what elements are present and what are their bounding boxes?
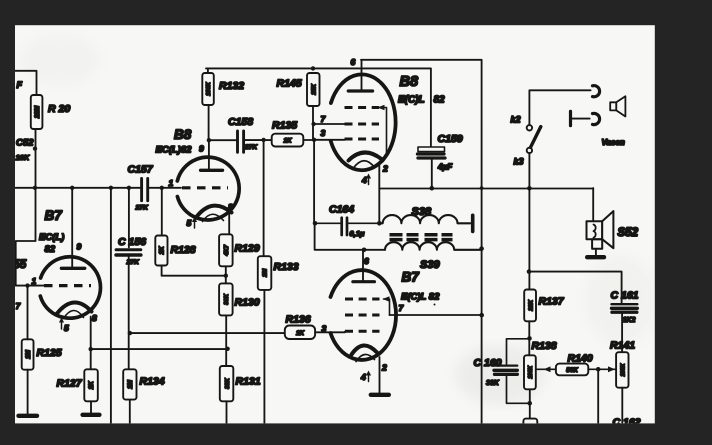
tube B7 pentode U4	[322, 256, 405, 382]
svg-text:27K: 27K	[135, 205, 150, 212]
svg-text:S38: S38	[412, 206, 432, 218]
wire C159 bottom	[431, 160, 433, 188]
wire pin2 to ground	[379, 357, 381, 392]
svg-text:R138: R138	[532, 340, 557, 352]
svg-text:22K: 22K	[528, 299, 534, 311]
wire S52 feed	[592, 188, 594, 221]
svg-text:R128: R128	[171, 244, 196, 256]
svg-text:55: 55	[14, 259, 27, 271]
svg-text:B8: B8	[174, 127, 192, 142]
svg-text:R 20: R 20	[48, 103, 70, 115]
resistor R125	[22, 339, 62, 369]
svg-text:4: 4	[361, 175, 367, 185]
capacitor C159	[418, 133, 463, 172]
svg-text:EC(L): EC(L)	[39, 232, 64, 243]
capacitor C160	[474, 339, 530, 404]
resistor R140	[537, 353, 617, 376]
svg-text:82: 82	[45, 244, 56, 255]
ground under S52	[587, 255, 604, 259]
ground under R125	[19, 414, 38, 418]
ground under B7 pentode	[371, 393, 389, 397]
wire output bus y188	[379, 165, 593, 189]
wire R141 bottom	[621, 388, 623, 423]
wire cathode B7	[90, 317, 92, 370]
svg-text:S39: S39	[420, 259, 440, 271]
svg-text:S52: S52	[618, 227, 639, 239]
svg-text:R129: R129	[235, 243, 260, 255]
jack contact upper	[593, 86, 600, 97]
svg-text:10K: 10K	[16, 153, 30, 162]
wire R138 bottom	[529, 389, 531, 418]
resistor R137	[524, 290, 565, 322]
resistor R128	[155, 236, 195, 266]
wire R145 bottom chain x314	[313, 106, 314, 223]
svg-text:100K: 100K	[528, 365, 534, 379]
wire pin7 to rail	[390, 314, 482, 316]
svg-text:4μF: 4μF	[437, 163, 453, 172]
capacitor C156	[116, 236, 146, 266]
wire S52 to ground	[595, 249, 597, 255]
inductor S38	[379, 206, 472, 231]
wire R131 bottom	[226, 401, 228, 423]
wire pin8 to R129	[228, 211, 230, 234]
svg-text:1: 1	[169, 178, 174, 188]
svg-text:C52: C52	[16, 138, 34, 149]
switch k2 k3	[511, 90, 591, 188]
svg-text:82: 82	[434, 95, 446, 106]
svg-text:F: F	[17, 80, 23, 90]
tube B7 triode U1	[32, 188, 101, 333]
resistor R130	[219, 283, 260, 315]
svg-text:33K: 33K	[225, 377, 231, 388]
wire C158 link	[209, 139, 272, 141]
wire main signal bus y188	[15, 187, 181, 189]
resistor R132	[202, 73, 244, 105]
wire tap x598	[597, 369, 599, 423]
svg-text:6: 6	[351, 57, 356, 67]
svg-text:1K2: 1K2	[623, 317, 636, 324]
svg-text:B7: B7	[45, 208, 64, 223]
svg-text:R136: R136	[286, 314, 311, 326]
svg-text:100K: 100K	[206, 81, 212, 95]
svg-text:1K: 1K	[296, 330, 305, 337]
svg-text:8: 8	[92, 313, 97, 323]
svg-text:100K: 100K	[621, 362, 627, 376]
svg-text:R137: R137	[539, 296, 565, 308]
resistor R127	[57, 369, 98, 401]
svg-text:6: 6	[364, 256, 369, 266]
wire R137 branch x529	[528, 188, 530, 289]
wire R125 grid lead	[27, 286, 29, 414]
svg-text:R141: R141	[610, 340, 635, 352]
resistor R129	[219, 234, 260, 266]
svg-text:1: 1	[32, 276, 37, 286]
tube B8 pentode U3	[331, 57, 396, 185]
wire C156 R134 chain	[129, 188, 130, 423]
svg-text:3: 3	[321, 128, 326, 138]
svg-text:5: 5	[187, 218, 192, 228]
wire R133 chain	[263, 140, 266, 423]
svg-text:Vasen: Vasen	[602, 138, 625, 147]
tube B8 triode U2	[169, 144, 240, 229]
wire R135 to tube	[303, 139, 314, 141]
inductor S39	[385, 242, 482, 271]
speaker S52	[587, 211, 639, 249]
svg-text:27K: 27K	[244, 144, 259, 151]
svg-text:R130: R130	[235, 297, 260, 309]
svg-text:9: 9	[199, 144, 204, 154]
svg-text:4K7: 4K7	[224, 244, 230, 256]
core S38 S39	[390, 235, 453, 240]
svg-text:56K: 56K	[566, 367, 578, 374]
svg-text:k3: k3	[514, 157, 524, 167]
wire C164 branch	[315, 223, 385, 250]
potentiometer R141	[610, 340, 635, 388]
wire pin3 B8	[314, 139, 345, 141]
wire B+ feed y68	[206, 68, 431, 146]
resistor R135	[272, 120, 304, 147]
svg-text:R135: R135	[272, 120, 297, 132]
wire C52 branch vertical	[16, 129, 36, 286]
wire grid bus y333	[130, 332, 285, 334]
svg-text:C 160: C 160	[474, 357, 502, 369]
capacitor C164	[315, 204, 379, 238]
resistor R136	[285, 314, 315, 340]
svg-text:0,1μ: 0,1μ	[350, 229, 365, 238]
capacitor C158	[228, 116, 258, 152]
wire anode pin6 rail	[361, 60, 482, 423]
svg-text:C157: C157	[128, 164, 154, 176]
svg-text:4: 4	[360, 372, 366, 382]
svg-text:2: 2	[382, 164, 388, 174]
wire vertical rail x111	[110, 188, 112, 423]
resistor R20	[31, 95, 71, 129]
svg-text:R132: R132	[219, 80, 244, 92]
potentiometer R138	[524, 340, 557, 389]
svg-text:22M: 22M	[34, 105, 41, 119]
wire F top-left	[15, 71, 37, 95]
wire B7 anode lead	[362, 250, 364, 282]
wire R129 R130 link	[225, 266, 227, 283]
wire R130 R131 link	[225, 315, 227, 366]
wire pin2 vertical x379	[378, 189, 380, 224]
capacitor C157	[128, 164, 154, 212]
wire cathode bus y349	[91, 348, 228, 350]
svg-text:R127: R127	[57, 378, 83, 390]
wire R128 leads	[162, 188, 226, 276]
svg-text:EC(L)82: EC(L)82	[156, 145, 193, 156]
svg-text:k2: k2	[511, 115, 521, 125]
resistor R134	[123, 369, 165, 399]
svg-text:R133: R133	[274, 261, 299, 273]
svg-text:B8: B8	[400, 74, 419, 90]
svg-text:C 161: C 161	[611, 290, 639, 302]
resistor R131	[220, 366, 261, 401]
wire R137 R138 link	[528, 321, 530, 355]
wire grid B7	[16, 285, 44, 287]
wire R127 to ground	[90, 401, 92, 413]
svg-text:1M: 1M	[127, 379, 134, 389]
svg-text:R125: R125	[37, 347, 62, 359]
svg-text:B7: B7	[402, 270, 421, 285]
svg-text:R131: R131	[236, 376, 261, 388]
capacitor C161	[611, 290, 639, 324]
wire pin7 B8	[314, 123, 345, 125]
svg-text:R140: R140	[568, 353, 593, 365]
speaker icon Vasen	[610, 96, 625, 116]
svg-text:E(C)L: E(C)L	[398, 95, 425, 106]
wire C161 feed	[529, 272, 622, 303]
svg-text:C164: C164	[329, 204, 354, 216]
wire B8 anode lead	[208, 105, 210, 170]
svg-text:1K: 1K	[88, 381, 95, 390]
svg-text:C158: C158	[228, 116, 253, 128]
svg-text:C159: C159	[438, 133, 463, 145]
svg-text:R145: R145	[277, 78, 302, 90]
svg-text:9: 9	[77, 242, 82, 252]
resistor bottom cut	[523, 419, 537, 431]
wire R136 to pin3	[315, 331, 345, 334]
svg-text:1M: 1M	[25, 349, 32, 359]
wire C161 R141 link	[621, 314, 623, 352]
svg-text:33K: 33K	[486, 380, 500, 387]
svg-text:1M: 1M	[263, 269, 269, 277]
resistor R133	[258, 256, 299, 290]
svg-text:27K: 27K	[126, 259, 141, 266]
svg-text:39K: 39K	[224, 293, 230, 304]
svg-text:1K: 1K	[159, 246, 166, 255]
svg-text:5: 5	[64, 323, 69, 333]
svg-text:R134: R134	[140, 376, 165, 388]
svg-text:2: 2	[381, 363, 387, 373]
resistor R145	[277, 73, 320, 106]
svg-text:E(C)L 82: E(C)L 82	[401, 292, 440, 303]
jack contact lower pair	[571, 111, 600, 125]
svg-text:C 162: C 162	[613, 417, 641, 429]
svg-text:1K: 1K	[283, 138, 292, 145]
svg-text:C 156: C 156	[118, 236, 146, 248]
svg-text:15K: 15K	[311, 83, 317, 94]
ground under R127	[83, 413, 100, 417]
